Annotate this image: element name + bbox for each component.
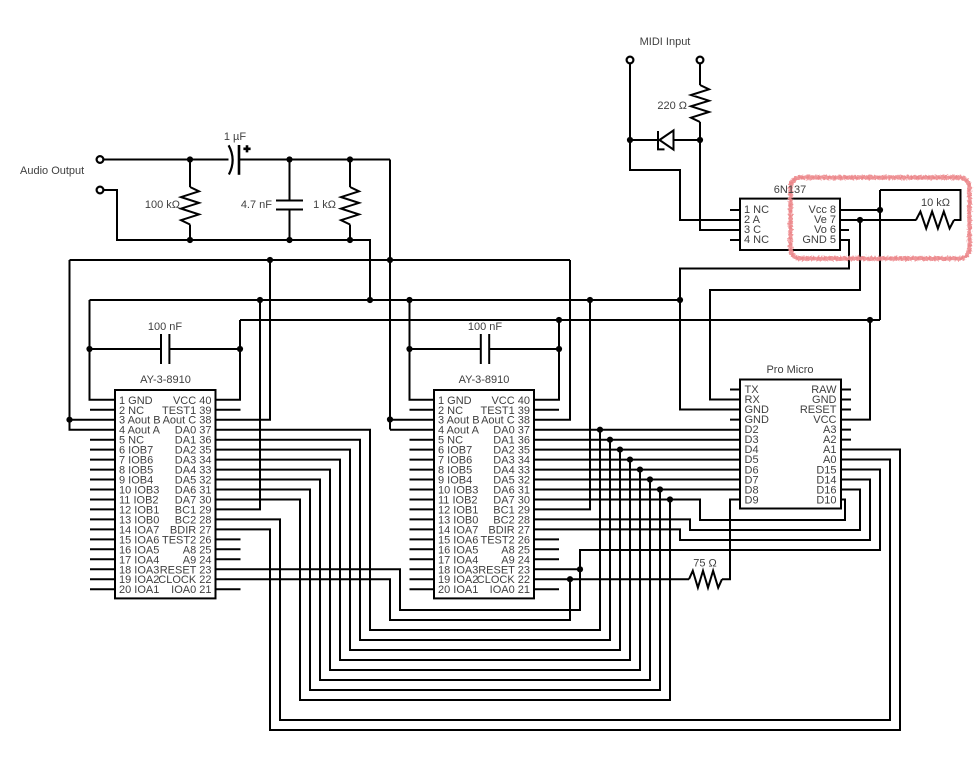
svg-text:6N137: 6N137 [774,184,806,196]
svg-text:AY-3-8910: AY-3-8910 [459,374,510,386]
svg-text:GND 5: GND 5 [802,234,836,246]
svg-text:20 IOA1: 20 IOA1 [438,584,478,596]
svg-text:MIDI Input: MIDI Input [640,36,691,48]
svg-text:220 Ω: 220 Ω [657,100,687,112]
svg-text:IOA0 21: IOA0 21 [171,584,211,596]
svg-text:20 IOA1: 20 IOA1 [119,584,159,596]
svg-text:1 kΩ: 1 kΩ [313,199,336,211]
svg-text:1 µF: 1 µF [224,131,247,143]
svg-text:100 kΩ: 100 kΩ [145,199,180,211]
svg-text:75 Ω: 75 Ω [693,558,717,570]
svg-text:IOA0 21: IOA0 21 [490,584,530,596]
svg-text:4.7 nF: 4.7 nF [241,199,272,211]
svg-text:4 NC: 4 NC [744,234,769,246]
svg-text:100 nF: 100 nF [468,321,503,333]
svg-text:D9: D9 [745,494,759,506]
svg-text:D10: D10 [816,494,836,506]
svg-text:10 kΩ: 10 kΩ [921,197,950,209]
svg-text:100 nF: 100 nF [148,321,183,333]
svg-text:Pro Micro: Pro Micro [766,364,813,376]
svg-text:AY-3-8910: AY-3-8910 [140,374,191,386]
svg-text:Audio Output: Audio Output [20,165,84,177]
